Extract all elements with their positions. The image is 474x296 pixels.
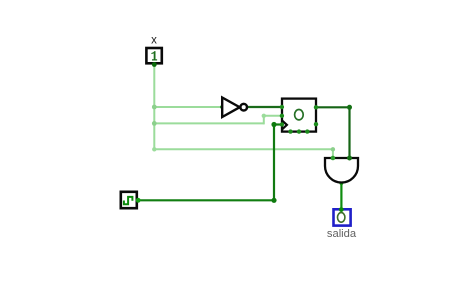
wire trunk from input x (net=1): [153, 65, 155, 150]
node input x output port: [152, 62, 157, 67]
svg-text:salida: salida: [327, 228, 357, 240]
AND gate U3: [325, 158, 358, 183]
wire branch C drop to AND left input: [332, 149, 334, 158]
label salida: [327, 228, 357, 240]
wire AND output to output pin salida: [340, 183, 342, 210]
subcircuit U2 box "O": [282, 99, 316, 132]
node AND gate output: [339, 181, 343, 185]
output pin salida: [334, 209, 351, 225]
corner node branch C at AND: [331, 147, 335, 151]
node subcircuit bottom-right pin: [314, 122, 318, 126]
clock CLK1: [121, 192, 137, 208]
label x: [151, 35, 157, 47]
svg-text:x: x: [151, 35, 157, 47]
wire branch C horizontal to AND gate: [154, 148, 333, 150]
node output pin input port: [339, 207, 344, 212]
node subcircuit bottom pin 2: [297, 129, 301, 133]
NOT gate U1: [222, 98, 247, 118]
wire NOT output to subcircuit top-left pin (net=0): [247, 106, 282, 108]
wire subcircuit top-right pin horizontal: [316, 106, 350, 108]
junction node trunk/NOT wire: [152, 105, 157, 110]
node NOT gate input: [220, 105, 224, 109]
wire drop to AND right input: [348, 107, 350, 158]
node clock wire corner: [271, 198, 276, 203]
wire branch B step up: [263, 116, 265, 125]
corner node branch B step: [262, 114, 266, 118]
junction node trunk/branch B: [152, 121, 157, 126]
wire to NOT gate input: [154, 106, 222, 108]
node subcircuit bottom pin 1: [288, 129, 292, 133]
node subcircuit clock pin: [280, 122, 284, 126]
wire clock horizontal: [138, 199, 274, 201]
wire branch B horizontal: [154, 122, 263, 124]
corner node branch C: [152, 147, 156, 151]
wire clock riser: [273, 125, 275, 201]
wire clock stub into subcircuit clock pin: [274, 123, 282, 125]
node AND right input: [347, 156, 352, 161]
node clock riser top junction: [271, 122, 276, 127]
wire into subcircuit middle-left pin: [264, 115, 282, 117]
node subcircuit top-left pin: [280, 105, 284, 109]
node subcircuit bottom pin 3: [305, 129, 309, 133]
node clock output port: [136, 198, 141, 203]
node AND left input: [331, 156, 336, 161]
node subcircuit middle-left pin: [280, 114, 284, 118]
node subcircuit top-right pin: [314, 105, 318, 109]
node corner above AND right input: [347, 105, 352, 110]
input pin x box: [146, 48, 161, 63]
